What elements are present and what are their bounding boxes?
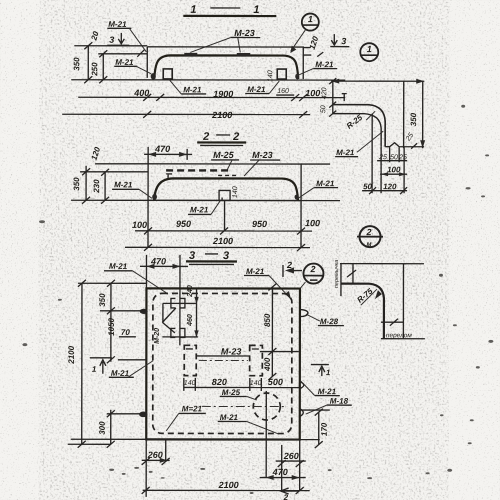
svg-text:1: 1 xyxy=(367,44,372,54)
svg-text:420: 420 xyxy=(321,87,328,99)
svg-text:500: 500 xyxy=(268,377,283,387)
svg-text:300: 300 xyxy=(98,421,107,435)
svg-text:М-21: М-21 xyxy=(246,267,265,276)
svg-text:50: 50 xyxy=(320,105,327,113)
svg-text:М-21: М-21 xyxy=(108,20,127,29)
svg-text:230: 230 xyxy=(92,179,101,194)
svg-text:950: 950 xyxy=(176,219,191,229)
svg-text:950: 950 xyxy=(252,219,267,229)
svg-text:160: 160 xyxy=(277,88,289,95)
svg-text:М-21: М-21 xyxy=(336,148,355,157)
svg-text:400: 400 xyxy=(133,88,149,98)
svg-text:2: 2 xyxy=(202,131,210,143)
svg-text:140: 140 xyxy=(232,186,239,198)
svg-text:2100: 2100 xyxy=(67,345,76,364)
svg-text:1: 1 xyxy=(92,365,97,374)
svg-text:25: 25 xyxy=(398,154,407,161)
svg-text:140: 140 xyxy=(184,380,196,387)
svg-text:М-20: М-20 xyxy=(154,328,161,344)
svg-text:перелом: перелом xyxy=(386,332,412,339)
svg-text:260: 260 xyxy=(283,451,299,461)
svg-text:1: 1 xyxy=(190,4,197,16)
svg-text:М-23: М-23 xyxy=(221,346,242,356)
svg-text:М=21: М=21 xyxy=(182,404,203,413)
svg-text:2100: 2100 xyxy=(211,110,232,120)
svg-text:100: 100 xyxy=(387,165,401,174)
svg-text:50: 50 xyxy=(363,182,372,191)
svg-text:850: 850 xyxy=(263,313,272,327)
svg-text:3: 3 xyxy=(341,36,346,46)
svg-text:2100: 2100 xyxy=(218,480,239,490)
svg-text:М-21: М-21 xyxy=(114,180,133,189)
svg-text:М-23: М-23 xyxy=(234,28,255,38)
svg-text:1: 1 xyxy=(308,14,313,24)
svg-text:2: 2 xyxy=(366,227,372,237)
svg-text:3: 3 xyxy=(223,250,230,262)
svg-text:100: 100 xyxy=(305,88,320,98)
svg-text:м: м xyxy=(367,241,373,248)
svg-text:М-25: М-25 xyxy=(213,150,235,160)
svg-text:М-21: М-21 xyxy=(115,58,134,67)
svg-text:2100: 2100 xyxy=(212,236,233,246)
svg-text:170: 170 xyxy=(320,422,329,436)
svg-text:М-28: М-28 xyxy=(320,317,339,326)
svg-text:350: 350 xyxy=(72,57,81,71)
svg-text:250: 250 xyxy=(90,62,99,77)
svg-text:2: 2 xyxy=(309,264,315,274)
svg-text:2: 2 xyxy=(283,493,289,500)
svg-text:перемычка: перемычка xyxy=(334,260,340,288)
svg-text:М-21: М-21 xyxy=(318,387,337,396)
svg-text:25: 25 xyxy=(378,154,387,161)
svg-text:470: 470 xyxy=(272,467,288,477)
svg-text:М-21: М-21 xyxy=(315,60,334,69)
svg-text:820: 820 xyxy=(212,377,227,387)
svg-text:120: 120 xyxy=(383,182,397,191)
svg-text:1: 1 xyxy=(253,4,260,16)
svg-text:М-21: М-21 xyxy=(190,205,209,214)
svg-text:70: 70 xyxy=(121,328,130,337)
svg-text:3: 3 xyxy=(189,250,196,262)
svg-text:М-21: М-21 xyxy=(183,85,202,94)
svg-text:100: 100 xyxy=(305,218,320,228)
svg-text:М-25: М-25 xyxy=(222,388,241,397)
svg-text:460: 460 xyxy=(187,314,194,327)
svg-text:М-18: М-18 xyxy=(330,397,349,406)
svg-text:350: 350 xyxy=(98,293,107,307)
svg-text:1900: 1900 xyxy=(213,89,233,99)
svg-text:3: 3 xyxy=(109,35,114,45)
svg-text:М-21: М-21 xyxy=(109,262,128,271)
svg-text:М-21: М-21 xyxy=(111,369,130,378)
svg-text:2: 2 xyxy=(232,131,240,143)
svg-text:1050: 1050 xyxy=(107,317,116,335)
svg-text:1: 1 xyxy=(326,368,331,377)
svg-text:М-23: М-23 xyxy=(252,150,273,160)
svg-text:50: 50 xyxy=(390,154,398,161)
svg-text:240: 240 xyxy=(187,285,194,298)
svg-text:140: 140 xyxy=(250,380,262,387)
svg-text:М-21: М-21 xyxy=(247,85,266,94)
svg-text:350: 350 xyxy=(409,112,418,126)
svg-text:100: 100 xyxy=(132,220,147,230)
svg-text:470: 470 xyxy=(154,144,170,154)
svg-text:М-21: М-21 xyxy=(316,179,335,188)
svg-text:М-21: М-21 xyxy=(220,413,239,422)
svg-text:350: 350 xyxy=(72,177,81,191)
svg-text:400: 400 xyxy=(263,357,272,372)
